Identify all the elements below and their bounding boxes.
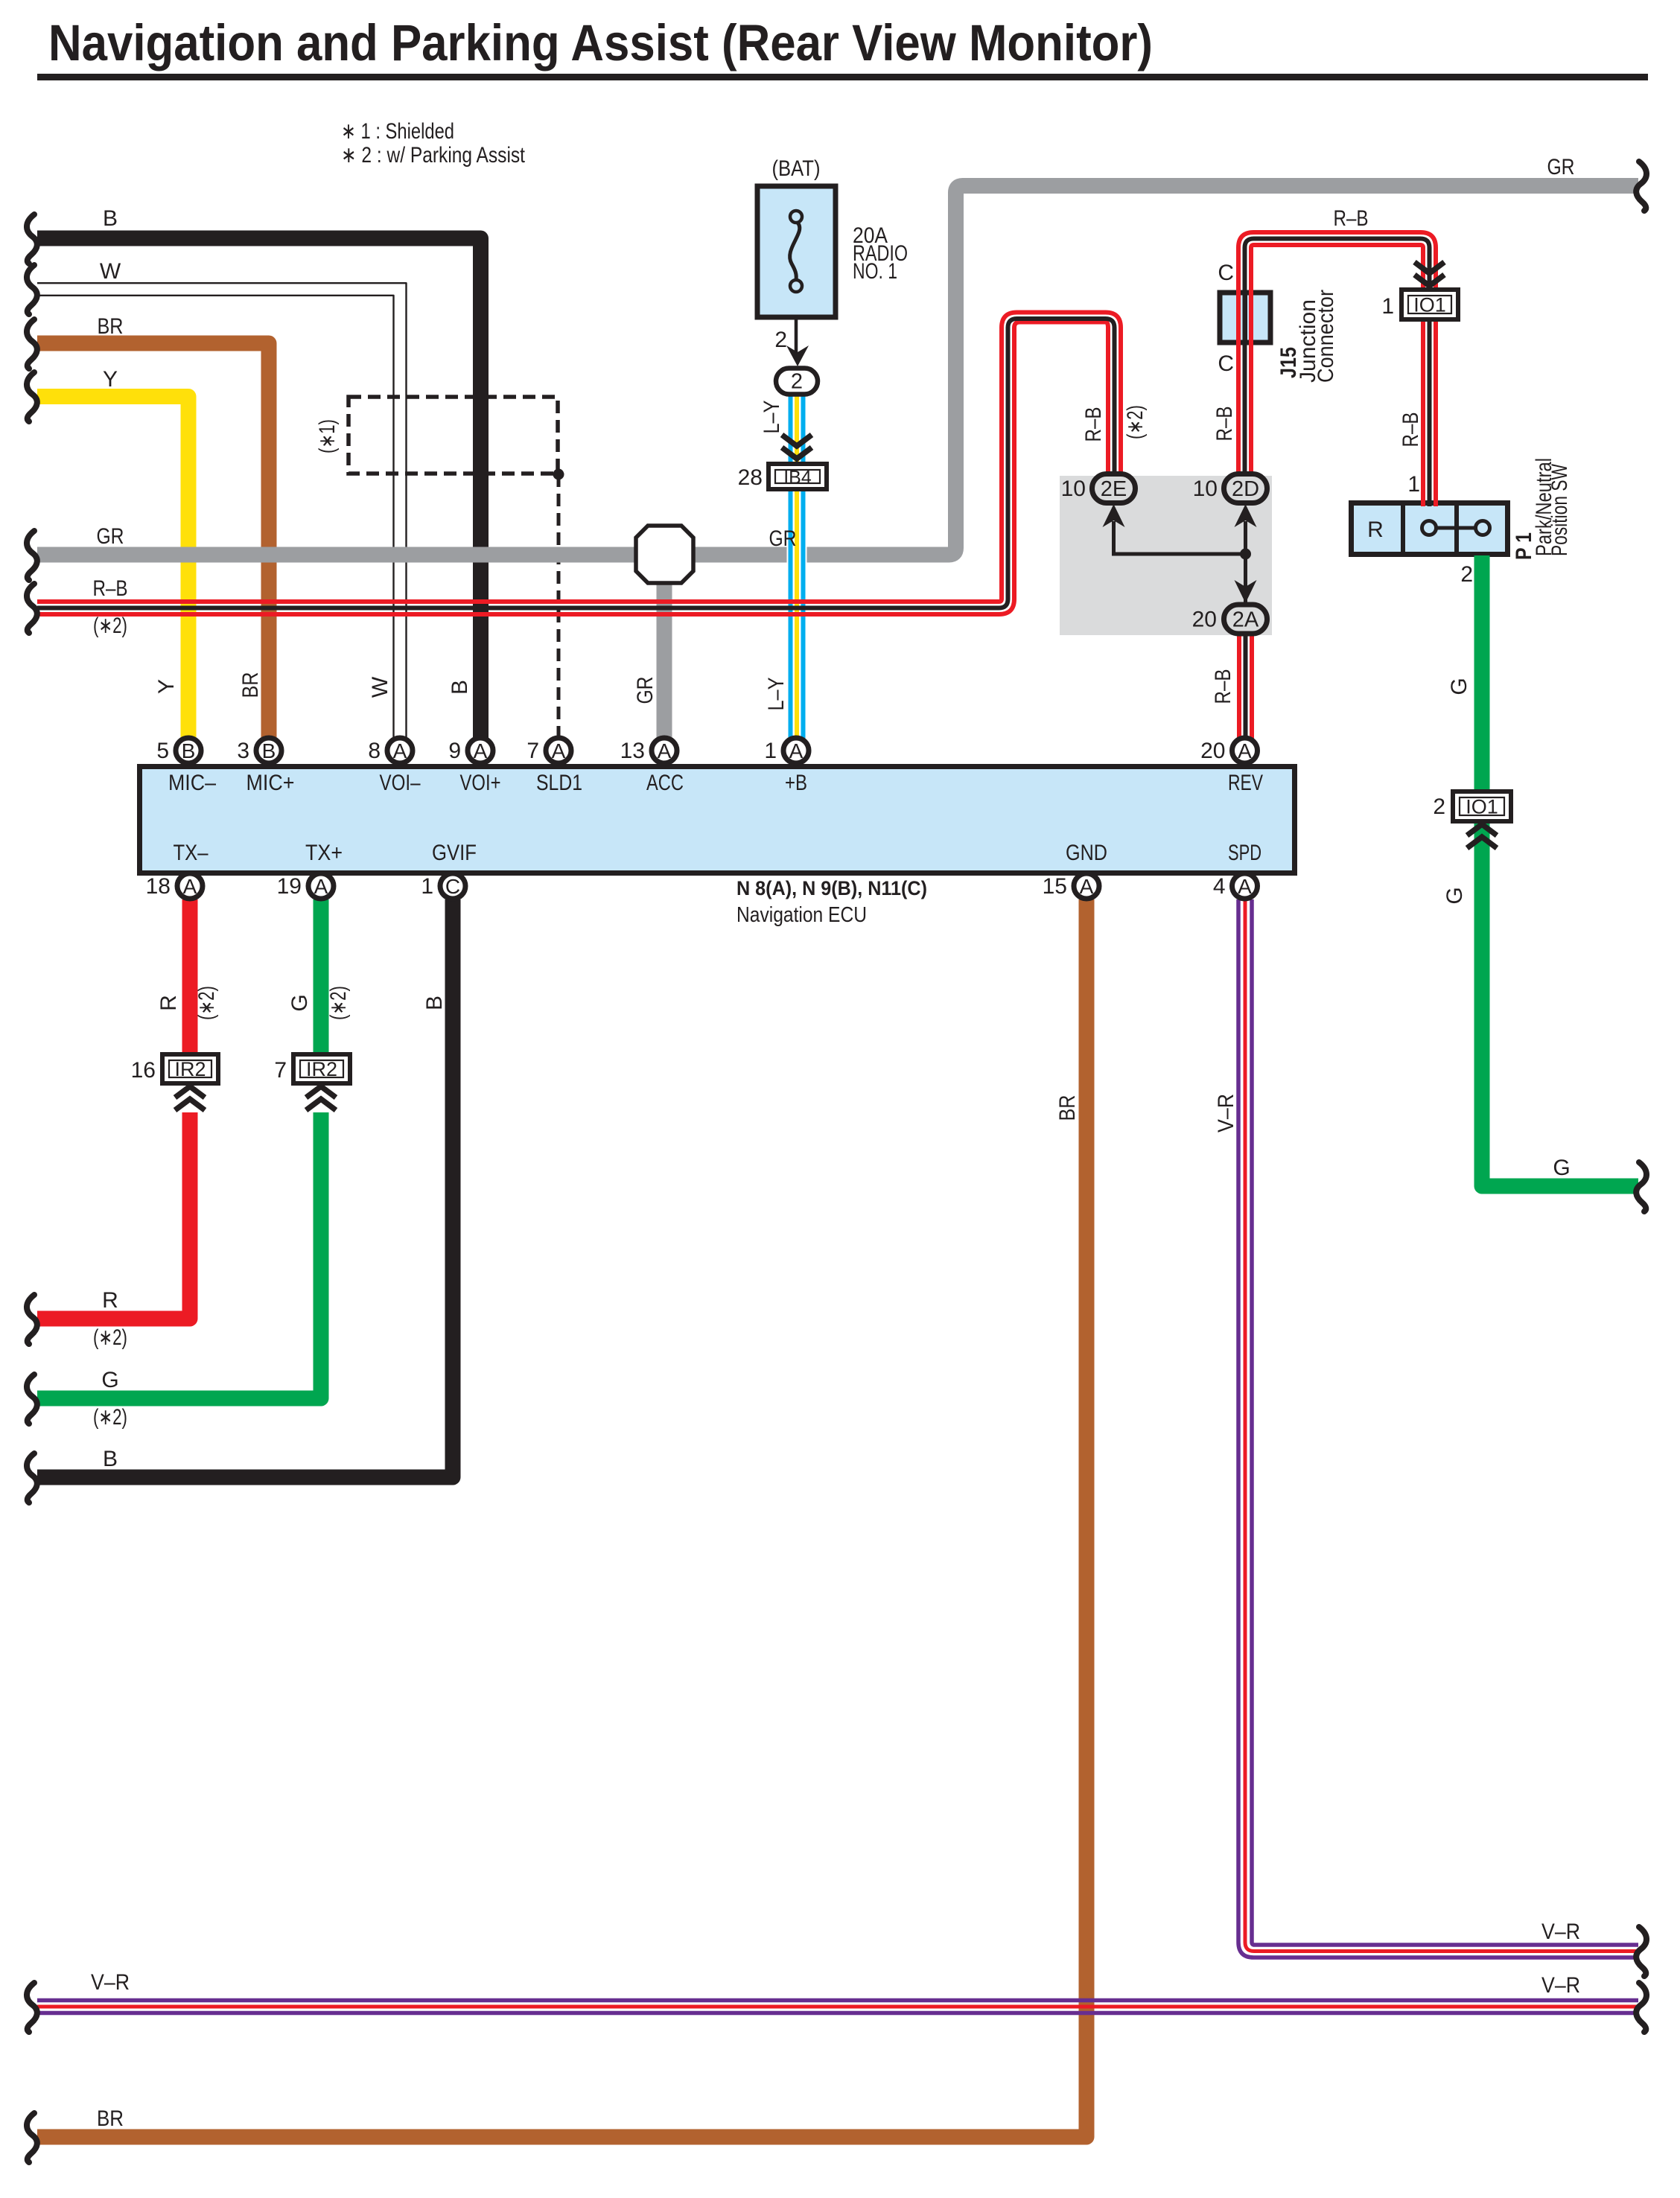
svg-text:GR: GR — [769, 526, 797, 551]
svg-text:B: B — [422, 996, 447, 1010]
J15 center divider — [1243, 293, 1247, 343]
svg-text:V–R: V–R — [91, 1970, 130, 1995]
svg-text:R: R — [102, 1288, 118, 1313]
P1 divider 1 — [1401, 500, 1405, 557]
svg-text:R: R — [156, 995, 181, 1011]
svg-text:1: 1 — [421, 874, 433, 899]
svg-text:∗ 2 : w/ Parking Assist: ∗ 2 : w/ Parking Assist — [341, 143, 526, 168]
connector oval 2E pin 10 — [1092, 474, 1136, 503]
IB4 chevron arrows — [782, 435, 812, 446]
title underline — [37, 74, 1648, 80]
P1 switch contacts — [1429, 526, 1483, 530]
Navigation ECU box N8/N9/N11 — [140, 767, 1295, 873]
svg-text:(∗2): (∗2) — [326, 986, 351, 1020]
svg-text:G: G — [1447, 678, 1471, 695]
svg-text:1: 1 — [764, 739, 777, 763]
IR2 #2 chevron arrows (up) — [306, 1086, 336, 1098]
connector box IR2 pin 16 — [162, 1054, 218, 1083]
svg-text:A: A — [474, 739, 488, 762]
svg-text:GR: GR — [1547, 155, 1575, 179]
svg-text:2: 2 — [1433, 794, 1445, 819]
ECU top pin 3(B) — [256, 738, 281, 763]
svg-text:SLD1: SLD1 — [536, 771, 582, 795]
fuse element symbol — [790, 211, 802, 223]
arrow into 2A — [1235, 580, 1257, 603]
svg-text:B: B — [182, 739, 196, 762]
svg-text:IB4: IB4 — [783, 468, 812, 488]
svg-text:G: G — [1553, 1156, 1570, 1180]
break squiggle left B — [27, 214, 37, 264]
break squiggle left W — [27, 265, 37, 314]
svg-text:MIC–: MIC– — [168, 771, 216, 795]
svg-text:C: C — [1218, 351, 1234, 376]
svg-text:10: 10 — [1061, 477, 1086, 501]
ECU top pin 5(B) — [176, 738, 201, 763]
wire R-B bundle 2A to REV — [1250, 629, 1254, 741]
wire W (white hollow) to VOI- — [37, 290, 400, 742]
svg-text:B: B — [103, 1447, 118, 1471]
wire Y (yellow) to MIC- — [37, 397, 188, 742]
svg-text:SPD: SPD — [1228, 841, 1261, 865]
break squiggle left R — [27, 1295, 37, 1344]
svg-text:13: 13 — [620, 739, 645, 763]
svg-text:Connector: Connector — [1314, 290, 1338, 383]
svg-text:C: C — [445, 875, 460, 898]
svg-text:G: G — [287, 994, 312, 1011]
svg-text:TX+: TX+ — [305, 841, 343, 865]
junction internal wire 2D-2A — [1244, 521, 1247, 605]
svg-text:28: 28 — [738, 465, 763, 490]
svg-text:Y: Y — [154, 679, 179, 694]
svg-text:2A: 2A — [1232, 608, 1259, 632]
wire L-Y bundle fuse to +B — [787, 393, 807, 741]
break squiggle right V-R — [1636, 1983, 1646, 2032]
wire GR right of shield octagon + up + to right edge — [690, 186, 1638, 555]
svg-text:(BAT): (BAT) — [772, 156, 821, 181]
svg-text:IR2: IR2 — [306, 1058, 337, 1080]
svg-text:V–R: V–R — [1541, 1973, 1580, 1998]
svg-text:R–B: R–B — [1399, 412, 1423, 447]
wire B (black) from left to VOI+ — [37, 238, 481, 741]
svg-text:IR2: IR2 — [174, 1058, 206, 1080]
wire B (black) GVIF to left edge — [37, 899, 453, 1477]
break squiggle left Y — [27, 372, 37, 421]
svg-text:W: W — [100, 259, 121, 284]
shield dashed box (*1) — [349, 397, 558, 474]
svg-text:N 8(A), N 9(B), N11(C): N 8(A), N 9(B), N11(C) — [736, 877, 927, 899]
svg-text:20: 20 — [1192, 608, 1217, 632]
ECU top pin 9(A) — [468, 738, 493, 763]
svg-text:A: A — [393, 739, 407, 762]
connector box IB4 pin 28 — [769, 464, 827, 489]
svg-text:L–Y: L–Y — [764, 678, 789, 711]
junction block box (gray) — [1060, 476, 1272, 635]
P1 divider 2 — [1454, 500, 1459, 557]
svg-text:A: A — [183, 875, 197, 898]
svg-text:3: 3 — [237, 739, 249, 763]
svg-text:A: A — [1080, 875, 1094, 898]
svg-text:R–B: R–B — [1212, 407, 1237, 442]
fuse box 20A RADIO NO.1 — [757, 186, 836, 317]
ECU bottom pin 4(A) — [1232, 873, 1258, 899]
svg-text:V–R: V–R — [1541, 1920, 1580, 1944]
svg-text:∗ 1 : Shielded: ∗ 1 : Shielded — [341, 119, 454, 144]
wire V-R bundle SPD down and right — [1238, 899, 1638, 1958]
break squiggle left BR2 — [27, 2113, 37, 2162]
park/neutral position SW P1 box — [1352, 503, 1508, 555]
svg-text:Position SW: Position SW — [1547, 463, 1572, 556]
svg-text:VOI–: VOI– — [380, 771, 421, 795]
break squiggle left V-R — [27, 1983, 37, 2032]
wire GR (gray) main horizontal — [37, 547, 640, 563]
junction internal wire 2E — [1114, 521, 1246, 554]
break squiggle left G — [27, 1374, 37, 1424]
svg-text:R–B: R–B — [1334, 206, 1369, 231]
junction internal dot — [1240, 549, 1251, 560]
wire GR stub octagon to ACC — [657, 581, 672, 741]
shield dashed wire to SLD1 — [557, 474, 561, 739]
svg-text:BR: BR — [98, 314, 124, 339]
svg-text:R–B: R–B — [1081, 407, 1106, 442]
svg-text:10: 10 — [1193, 477, 1218, 501]
wire R (red) TX- to IR2 — [182, 899, 198, 1055]
connector box IO1 pin 2 — [1453, 791, 1511, 821]
break squiggle left GR — [27, 531, 37, 580]
svg-text:A: A — [658, 739, 672, 762]
wire G (green) TX+ to IR2 — [314, 899, 329, 1055]
svg-text:IO1: IO1 — [1413, 294, 1446, 316]
svg-text:TX–: TX– — [174, 841, 209, 865]
svg-text:2E: 2E — [1101, 477, 1127, 501]
IR2 #1 chevron arrows (up) — [175, 1086, 205, 1098]
svg-text:5: 5 — [156, 739, 169, 763]
arrow into 2D — [1235, 504, 1257, 527]
break squiggle right GR — [1636, 162, 1646, 211]
svg-text:GR: GR — [97, 524, 124, 549]
ECU top pin 20(A) — [1232, 738, 1258, 763]
ECU bottom pin 18(A) — [177, 873, 203, 899]
svg-text:R–B: R–B — [1211, 669, 1235, 704]
svg-text:2: 2 — [1460, 562, 1473, 587]
svg-text:G: G — [101, 1368, 118, 1392]
ECU bottom pin 19(A) — [308, 873, 334, 899]
svg-text:8: 8 — [368, 739, 381, 763]
svg-text:Navigation and Parking Assist: Navigation and Parking Assist (Rear View… — [48, 14, 1153, 71]
svg-text:Y: Y — [103, 367, 118, 392]
svg-text:(∗1): (∗1) — [315, 419, 340, 453]
svg-text:R–B: R–B — [93, 576, 128, 601]
svg-text:BR: BR — [238, 672, 263, 698]
svg-text:A: A — [789, 739, 804, 762]
svg-text:B: B — [448, 680, 472, 695]
svg-text:15: 15 — [1043, 874, 1067, 899]
connector oval 2D pin 10 — [1224, 474, 1267, 503]
svg-text:(∗2): (∗2) — [1123, 405, 1148, 439]
svg-text:20: 20 — [1200, 739, 1225, 763]
wire R-B bundle top: J15 leg, horizontal, IO1 leg — [1238, 232, 1436, 506]
IO1 chevron arrows (down) — [1415, 262, 1445, 273]
break squiggle right V-R spd — [1636, 1927, 1646, 1976]
svg-text:1: 1 — [1407, 472, 1420, 497]
ECU top pin 8(A) — [387, 738, 413, 763]
ECU bottom pin 1(C) — [440, 873, 465, 899]
fuse arrow down — [786, 345, 809, 366]
svg-text:ACC: ACC — [646, 771, 684, 795]
wire R (red) below IR2 to left edge — [37, 1112, 190, 1319]
svg-text:7: 7 — [274, 1058, 287, 1083]
arrow into 2E — [1103, 504, 1125, 527]
svg-text:2: 2 — [791, 370, 803, 394]
shield octagon on GR wire — [636, 526, 693, 583]
svg-text:19: 19 — [277, 874, 302, 899]
fuse lead wire — [795, 317, 798, 357]
svg-text:(∗2): (∗2) — [194, 986, 219, 1020]
svg-text:V–R: V–R — [1214, 1094, 1238, 1133]
svg-text:W: W — [368, 676, 392, 698]
connector box IR2 pin 7 — [293, 1054, 350, 1083]
svg-text:18: 18 — [146, 874, 171, 899]
svg-text:GVIF: GVIF — [432, 841, 477, 865]
svg-text:9: 9 — [448, 739, 461, 763]
svg-text:IO1: IO1 — [1466, 796, 1498, 818]
wire BR (brown) to MIC+ — [37, 343, 269, 741]
junction connector J15 box — [1220, 293, 1270, 343]
svg-text:1: 1 — [1381, 294, 1394, 319]
svg-text:A: A — [314, 875, 328, 898]
svg-text:(∗2): (∗2) — [93, 614, 127, 638]
svg-text:A: A — [1238, 739, 1252, 762]
svg-text:(∗2): (∗2) — [93, 1325, 127, 1350]
ECU top pin 7(A) — [546, 738, 571, 763]
ECU bottom pin 15(A) — [1074, 873, 1099, 899]
wire G (green) P1 pin2 down to IO1 — [1474, 555, 1490, 794]
svg-text:VOI+: VOI+ — [460, 771, 501, 795]
svg-text:2D: 2D — [1232, 477, 1259, 501]
connector oval 2 below fuse — [776, 369, 818, 395]
svg-text:C: C — [1218, 261, 1234, 285]
svg-text:G: G — [1442, 887, 1467, 904]
wire G (green) below IR2 to left edge — [37, 1112, 321, 1398]
svg-text:Navigation ECU: Navigation ECU — [736, 903, 867, 927]
svg-text:4: 4 — [1213, 874, 1226, 899]
svg-text:MIC+: MIC+ — [246, 771, 295, 795]
break squiggle left B2 — [27, 1453, 37, 1503]
ECU top pin 1(A) — [783, 738, 809, 763]
wire G (green) below IO1 to right edge — [1482, 819, 1638, 1186]
svg-text:(∗2): (∗2) — [93, 1405, 127, 1430]
svg-text:NO. 1: NO. 1 — [853, 259, 897, 284]
wire R-B bundle left horizontal with loop to 2E — [37, 313, 1121, 602]
connector oval 2A pin 20 — [1224, 605, 1267, 634]
wire V-R bundle bottom horizontal — [37, 1998, 1638, 2003]
svg-text:B: B — [103, 206, 118, 231]
svg-text:+B: +B — [785, 771, 807, 795]
ECU top pin 13(A) — [652, 738, 677, 763]
break squiggle right G — [1636, 1162, 1646, 1211]
svg-text:BR: BR — [1055, 1095, 1080, 1121]
svg-text:GR: GR — [633, 677, 658, 704]
svg-text:BR: BR — [97, 2106, 124, 2131]
svg-text:B: B — [262, 739, 276, 762]
break squiggle left R-B — [27, 584, 37, 633]
svg-text:2: 2 — [774, 328, 787, 352]
svg-text:GND: GND — [1066, 841, 1107, 865]
connector box IO1 pin 1 — [1401, 290, 1458, 319]
svg-text:REV: REV — [1228, 771, 1263, 795]
svg-text:16: 16 — [131, 1058, 156, 1083]
shield junction dot — [553, 469, 564, 480]
svg-text:A: A — [1238, 875, 1252, 898]
svg-text:L–Y: L–Y — [760, 401, 784, 434]
svg-text:7: 7 — [526, 739, 539, 763]
IO1 #2 chevron arrows (up) — [1467, 824, 1497, 835]
svg-text:A: A — [552, 739, 566, 762]
wire BR (brown) GND to bottom left edge — [37, 899, 1086, 2137]
break squiggle left BR — [27, 319, 37, 369]
svg-text:R: R — [1367, 517, 1384, 542]
